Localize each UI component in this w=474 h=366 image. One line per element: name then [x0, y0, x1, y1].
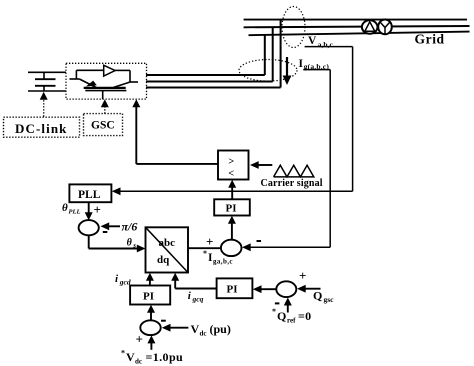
comparator U1 — [218, 151, 249, 180]
wire bus phase c — [249, 32, 470, 36]
svg-text:*: * — [272, 307, 276, 316]
PI controller current loop (PI-1) — [214, 199, 250, 215]
svg-text:π/6: π/6 — [122, 220, 138, 234]
svg-text:(pu): (pu) — [210, 322, 231, 336]
wire S3 to PI2 — [253, 285, 276, 293]
DC-link pointer arrow (dotted) — [40, 92, 48, 117]
svg-text:a,b,c: a,b,c — [318, 40, 334, 49]
wire V sense drop — [352, 47, 354, 192]
carrier signal waveform — [274, 165, 314, 177]
svg-text:*: * — [121, 349, 125, 358]
wire PWM gate signal — [132, 99, 218, 164]
PLL block — [69, 184, 111, 202]
svg-text:PI: PI — [226, 203, 237, 215]
label i gcq — [188, 290, 204, 304]
svg-text:Carrier signal: Carrier signal — [261, 178, 323, 189]
svg-text:GSC: GSC — [91, 120, 115, 132]
svg-text:abc: abc — [159, 237, 176, 249]
wire abc/dq output to S2 — [188, 247, 221, 249]
svg-text:V: V — [308, 35, 317, 47]
label Vabc — [305, 35, 353, 49]
svg-text:PLL: PLL — [78, 189, 101, 201]
svg-text:*: * — [203, 249, 207, 258]
svg-text:Q: Q — [313, 289, 322, 303]
svg-text:dq: dq — [157, 254, 170, 266]
current direction arrow — [283, 57, 292, 85]
wire bus phase b — [244, 26, 470, 27]
abc/dq transform block — [146, 227, 189, 272]
wire riser phase b — [272, 27, 274, 81]
wire S1 output theta s — [89, 235, 146, 252]
svg-text:<: < — [228, 169, 234, 180]
PI controller Q loop (PI-2) — [217, 278, 253, 298]
svg-text:θ: θ — [127, 238, 133, 249]
DC-link label box — [4, 117, 80, 137]
svg-text:Q: Q — [277, 309, 286, 323]
wire pi/6 input arrow — [101, 222, 121, 230]
svg-text:θ: θ — [62, 202, 68, 214]
wire Qgsc input arrow — [297, 285, 321, 293]
label theta PLL — [62, 202, 80, 216]
svg-text:+: + — [299, 268, 306, 283]
label i gcd — [115, 273, 131, 287]
wire Vdc ref input arrow — [147, 335, 155, 349]
svg-text:DC-link: DC-link — [15, 121, 68, 136]
summing junction S2 — [221, 240, 242, 256]
wire GSC output line 3 — [146, 87, 281, 89]
svg-text:ga,b,c: ga,b,c — [213, 258, 233, 266]
svg-text:+: + — [206, 234, 213, 249]
current measurement ellipse — [239, 60, 297, 82]
GSC label box — [84, 114, 123, 136]
wire carrier input arrow — [250, 161, 272, 169]
svg-text:dc: dc — [200, 330, 207, 338]
label *Qref=0 — [272, 307, 311, 325]
wire DC rail top — [28, 71, 66, 73]
wire GSC output line 2 — [146, 81, 273, 83]
label *Vdc=1.0pu — [121, 349, 183, 366]
wire PLL output to S1 — [85, 202, 93, 220]
svg-text:V: V — [126, 350, 135, 364]
svg-text:+: + — [136, 332, 143, 347]
minus sign at S1 — [103, 231, 108, 233]
label Igabc — [299, 58, 331, 71]
wire riser phase c — [264, 35, 266, 75]
svg-text:ref: ref — [287, 317, 296, 325]
wire PI3 to abc/dq — [146, 273, 154, 286]
wire Qref input arrow — [284, 298, 292, 313]
wire DC rail bottom — [28, 90, 66, 92]
svg-text:gcd: gcd — [119, 278, 131, 287]
svg-text:=1.0pu: =1.0pu — [146, 350, 184, 364]
svg-text:+: + — [94, 202, 101, 217]
label Q gsc — [313, 289, 334, 305]
label *I ga,b,c — [203, 249, 233, 266]
minus sign at S3 — [275, 302, 280, 304]
svg-text:gcq: gcq — [192, 295, 204, 304]
label Vdc (pu) — [191, 322, 231, 338]
svg-text:PLL: PLL — [69, 209, 81, 216]
label theta s — [127, 238, 137, 250]
GSC pointer arrow (dotted) — [101, 99, 109, 113]
wire PI2 output to abc/dq — [171, 273, 216, 289]
summing junction S4 — [140, 320, 160, 335]
wire S2 to PI1 — [228, 216, 236, 240]
summing junction S1 — [79, 220, 99, 235]
summing junction S3 — [276, 281, 296, 297]
wire I feedback to sum S2 — [242, 243, 330, 251]
converter box (dashed) — [66, 63, 147, 99]
voltage measurement ellipse — [282, 7, 305, 48]
svg-text:gsc: gsc — [324, 295, 335, 304]
capacitor C1 DC-link — [35, 72, 56, 91]
wire bus phase a — [244, 19, 467, 21]
svg-text:s: s — [132, 242, 136, 250]
minus sign at S4 — [161, 320, 166, 322]
wire Vdc(pu) input arrow — [162, 324, 189, 332]
wire PI1 to comparator — [228, 180, 236, 200]
IGBT Q1 with diode — [70, 65, 139, 99]
svg-text:PI: PI — [143, 291, 154, 303]
svg-text:V: V — [191, 322, 200, 336]
wire S4 to PI3 — [147, 305, 155, 321]
svg-text:=0: =0 — [298, 309, 311, 323]
wire I sense drop — [329, 70, 331, 248]
wire GSC output line 1 — [146, 74, 265, 76]
svg-text:dc: dc — [135, 358, 142, 366]
minus sign at S2 — [257, 240, 262, 242]
svg-text:Grid: Grid — [415, 32, 445, 47]
PI controller Vdc loop (PI-3) — [130, 286, 170, 305]
svg-text:PI: PI — [227, 284, 238, 296]
transformer T1 delta-wye — [362, 20, 392, 35]
svg-text:>: > — [228, 157, 234, 168]
wire riser phase a — [280, 20, 282, 88]
wire V feedback to PLL — [112, 187, 353, 195]
